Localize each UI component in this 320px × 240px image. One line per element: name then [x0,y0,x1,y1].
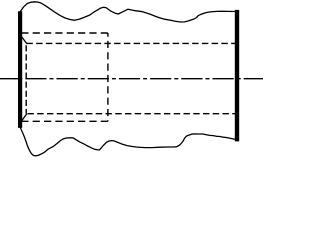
hidden outline: counterbore end wall (dashed vertical) [107,33,109,121]
right end face (thick visible line) [235,10,239,142]
hidden outline: small bore end wall (dashed vertical) [25,45,27,114]
centerline filler under left end face [15,78,19,80]
bottom break line (freehand wavy) [21,128,236,156]
hidden outline: counterbore bottom (dashed) [21,120,108,122]
centerline (dash-dot axis) [0,78,263,80]
hidden outline: counterbore top and step (dashed) [21,32,108,34]
hidden outline: small bore bottom (dashed) [28,113,237,115]
chamfer edge bottom [20,114,27,124]
left end face (thick visible line) [18,11,22,128]
hidden outline: small bore top (dashed) [26,42,236,44]
top break line (freehand wavy) [21,2,236,22]
chamfer edge top [20,34,27,43]
